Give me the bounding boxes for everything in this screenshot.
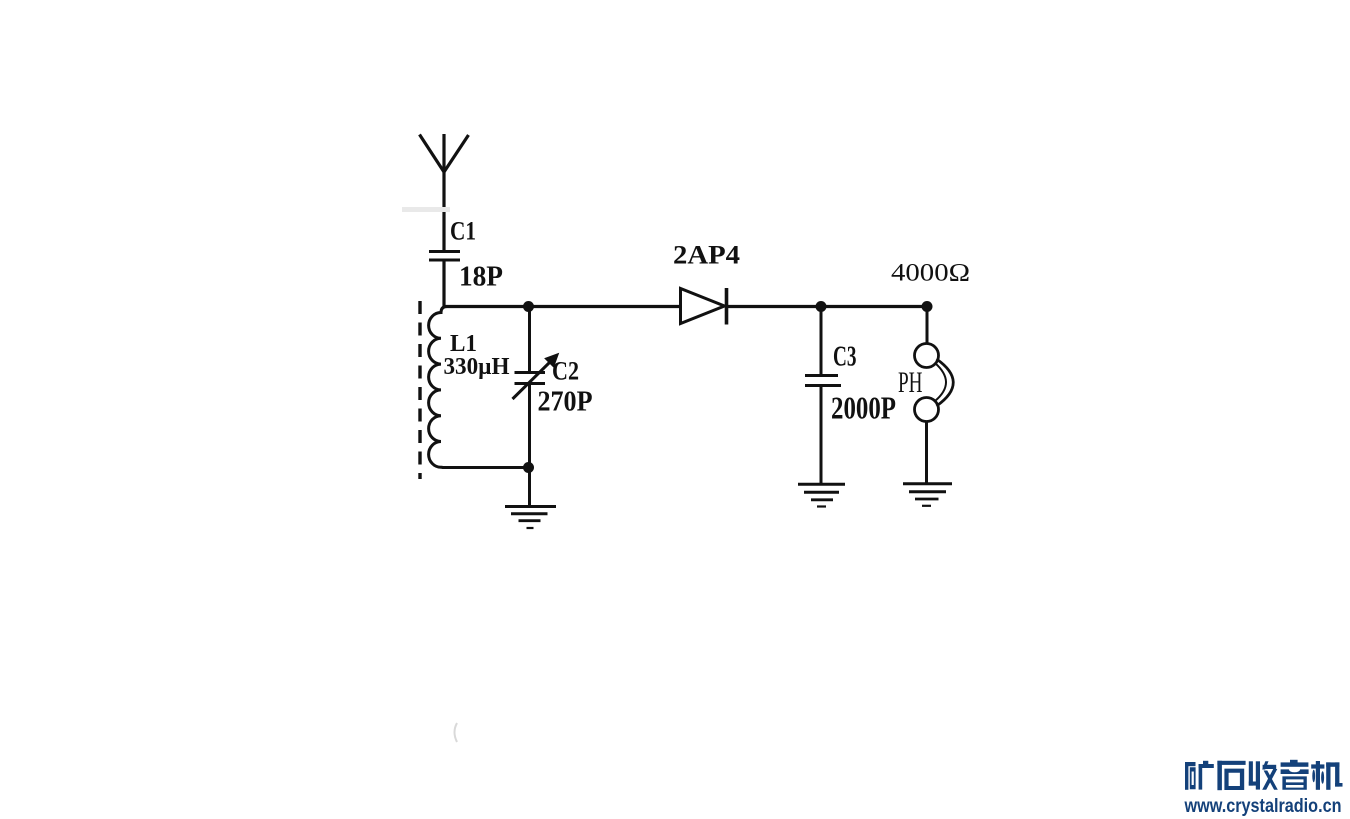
wire C1 to tank top [442, 260, 445, 307]
svg-text:C2: C2 [552, 357, 579, 386]
wire headphone to ground [925, 422, 928, 484]
wire bottom: coil to C2 bottom [447, 466, 530, 469]
svg-text:2000P: 2000P [831, 390, 896, 426]
antenna [420, 134, 469, 251]
ground (tank) [505, 507, 556, 529]
svg-text:C3: C3 [833, 342, 857, 373]
wire node B to ground [528, 468, 531, 507]
node C (C3 junction) [816, 301, 827, 312]
ground (PH) [903, 484, 952, 506]
svg-text:PH: PH [898, 366, 923, 399]
svg-text:www.crystalradio.cn: www.crystalradio.cn [1184, 795, 1342, 817]
inductor L1 [429, 307, 470, 468]
watermark logo: char shi (stone) [1217, 761, 1245, 790]
node D (headphone junction) [922, 301, 933, 312]
svg-text:4000Ω: 4000Ω [891, 260, 970, 287]
watermark logo: char ji (machine) [1311, 761, 1342, 790]
svg-text:330µH: 330µH [444, 354, 510, 380]
node B (bottom junction) [523, 462, 534, 473]
svg-text:C1: C1 [450, 217, 476, 246]
node A (top junction) [523, 301, 534, 312]
wire top: tank to diode [444, 305, 680, 308]
ground (C3) [798, 484, 845, 506]
scan smudge 1 [402, 207, 450, 212]
diode D1 2AP4 [681, 288, 727, 325]
watermark logo: char shou (receive) [1249, 761, 1278, 790]
capacitor C1 [429, 252, 460, 261]
watermark logo: char kuang (mine) [1185, 761, 1214, 790]
svg-text:18P: 18P [459, 262, 503, 293]
wire diode to headphone node [727, 305, 928, 308]
wire node D to headphone [926, 307, 929, 345]
watermark logo: char yin (sound) [1281, 760, 1309, 790]
scan smudge 2 [455, 723, 458, 742]
headphone PH [915, 344, 954, 422]
svg-text:270P: 270P [538, 387, 593, 418]
ferrite rod (dashed) [418, 301, 421, 479]
capacitor C3 [805, 307, 841, 484]
svg-text:2AP4: 2AP4 [673, 241, 740, 270]
variable capacitor C2 [513, 307, 552, 468]
